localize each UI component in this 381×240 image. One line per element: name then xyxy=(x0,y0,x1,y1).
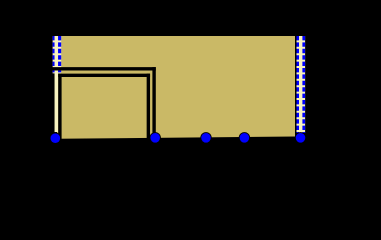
tan filled region xyxy=(57,36,295,139)
node dot 5 xyxy=(296,133,306,143)
node dot 4 (black ring) xyxy=(239,132,250,143)
node dot 2 xyxy=(150,133,160,143)
node dot 5 (black ring) xyxy=(295,132,306,143)
right blue dashed vertical line xyxy=(296,36,305,133)
node dot 2 (black ring) xyxy=(150,132,161,143)
outer black rectangle: right edge xyxy=(152,67,155,140)
inner black rectangle: right edge xyxy=(147,74,150,141)
right pale yellow vertical line xyxy=(299,36,302,133)
inner black rectangle: left edge xyxy=(58,74,61,141)
left pale yellow vertical line xyxy=(55,36,59,132)
left blue dashed vertical line xyxy=(53,36,62,73)
outer black rectangle: top edge xyxy=(52,67,156,70)
right wide pale under-line xyxy=(296,36,305,133)
node dot 3 (black ring) xyxy=(200,132,211,143)
node dot 4 xyxy=(240,133,250,143)
left wide pale under-line xyxy=(53,36,62,73)
node dot 1 xyxy=(51,133,61,143)
node dot 1 (black ring) xyxy=(50,133,61,144)
inner black rectangle: top edge xyxy=(58,74,150,77)
node dot 3 xyxy=(201,133,211,143)
